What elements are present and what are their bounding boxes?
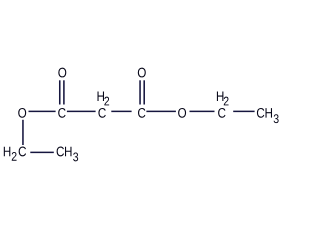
node C central of CH2 [98,108,105,118]
node O ester right [178,108,186,118]
wire: bond CH2-CH3 right [233,110,254,112]
wire: bond O-CH2 right [190,110,215,112]
wire: double bond C=O left line 1 [59,80,61,104]
wire: double bond C=O right line 1 [139,80,141,104]
node H2 label right [217,92,229,106]
wire: bond C-O ester right [146,110,176,112]
wire: bond H2C-CH3 bottom [30,151,54,153]
node O carbonyl left [58,68,66,78]
wire: double bond C=O left line 2 [63,80,65,104]
wire: bond C central to C right [111,110,131,112]
wire: bond O-C(=O) left [29,110,56,112]
node H2 label central [98,92,110,106]
node CH3 bottom [57,147,79,162]
wire: bond O-CH2 left vertical [22,120,24,145]
node C of CH2 right [218,108,225,118]
wire: bond C-C left to central [67,110,96,112]
node O carbonyl right [138,68,146,78]
node O ester left [18,108,26,118]
node C carbonyl right [138,108,145,118]
wire: double bond C=O right line 2 [143,80,145,104]
node H2C bottom left [4,147,26,161]
node CH3 right [257,108,279,123]
node C carbonyl left [58,108,65,118]
